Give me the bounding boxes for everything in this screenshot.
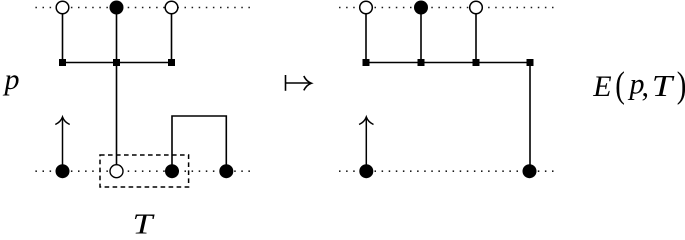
label E(p, T) [592, 65, 685, 106]
filled vertex (bottom 3, left diagram) [165, 164, 179, 178]
wire: rightmost square down to bottom vertex (right diagram) [529, 63, 531, 172]
top dotted line (right diagram) [339, 7, 554, 9]
wire: horizontal bar joining squares (right diagram) [366, 62, 530, 64]
wire: middle square down to bottom open vertex [116, 63, 118, 166]
bottom dotted line (right diagram) [339, 170, 554, 172]
top dotted line (left diagram) [35, 7, 250, 9]
wire: left top circle to square (right diagram) [365, 13, 367, 63]
filled vertex (bottom 1, left diagram) [56, 164, 70, 178]
filled vertex (bottom 2, right diagram) [523, 164, 537, 178]
square node 3 (left diagram) [168, 59, 175, 66]
filled vertex (top middle, right diagram) [414, 1, 428, 15]
svg-text:p: p [3, 63, 20, 96]
filled vertex (bottom 4, left diagram) [219, 164, 233, 178]
wire: right top circle to square (right diagram) [475, 13, 477, 63]
svg-text:T: T [133, 209, 155, 235]
open vertex (top right) [165, 1, 178, 14]
open vertex (top left, right diagram) [360, 1, 373, 14]
mapsto arrow [286, 75, 312, 91]
up arrow from bottom-left vertex (right diagram) [359, 117, 373, 171]
up arrow from bottom-left vertex (left diagram) [55, 117, 69, 171]
square node 3 (right diagram) [473, 59, 480, 66]
wire: right top circle to square [171, 13, 173, 63]
svg-text:T: T [652, 68, 676, 103]
bottom dotted line (left diagram) [35, 170, 250, 172]
svg-text:(: ( [615, 65, 625, 106]
square node 2 (left diagram) [113, 59, 120, 66]
filled vertex (bottom 1, right diagram) [359, 164, 373, 178]
svg-text:E: E [592, 70, 611, 103]
square node 1 (right diagram) [363, 59, 370, 66]
wire: middle top circle to square [116, 10, 118, 63]
square node 2 (right diagram) [418, 59, 425, 66]
bridge wire joining bottom vertices 3 and 4 (left diagram) [172, 116, 226, 171]
svg-text:): ) [677, 65, 685, 106]
filled vertex (top middle) [110, 1, 124, 15]
svg-text:,: , [642, 70, 650, 103]
square node 1 (left diagram) [59, 59, 66, 66]
dashed selection box T [100, 155, 189, 187]
wire: middle top circle to square (right diagram) [420, 10, 422, 63]
open vertex (bottom 2, left diagram) [110, 165, 123, 178]
open vertex (top right, right diagram) [470, 1, 483, 14]
open vertex (top left) [56, 1, 69, 14]
square node 4 (right diagram) [527, 59, 534, 66]
wire: left top circle to square [62, 13, 64, 63]
wire: horizontal bar joining squares (left diagram) [63, 62, 172, 64]
